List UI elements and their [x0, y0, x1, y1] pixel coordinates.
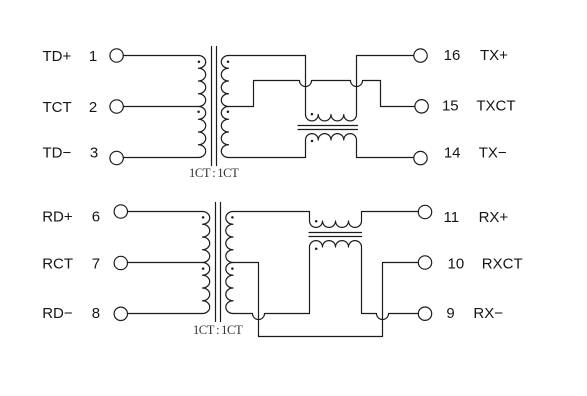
svg-text:1CT : 1CT: 1CT : 1CT	[193, 323, 243, 337]
transformer T2 primary winding	[203, 212, 210, 314]
wire pin2 to primary center tap	[123, 106, 198, 108]
wire pin6 to T2 primary top	[128, 211, 203, 213]
svg-text:RX−: RX−	[473, 305, 503, 322]
svg-text:10: 10	[448, 255, 465, 272]
pin 3 terminal circle	[110, 151, 123, 164]
svg-text:TX+: TX+	[480, 47, 508, 64]
svg-text:1: 1	[89, 48, 97, 65]
wire T1 secondary bottom to choke L1 lower winding and pin 14	[229, 134, 414, 158]
svg-text:15: 15	[442, 97, 459, 114]
svg-text:TD+: TD+	[43, 48, 72, 65]
svg-text:1CT : 1CT: 1CT : 1CT	[189, 166, 239, 180]
wire TXCT: T1 secondary center tap to pin 15 with crossover hops	[229, 81, 415, 107]
T2 secondary polarity dot upper	[231, 216, 234, 219]
wire pin1 to primary top	[123, 55, 198, 57]
choke L1 core line lower	[298, 129, 358, 131]
pin 8 terminal circle	[114, 307, 127, 320]
transformer T2 core line left	[215, 203, 217, 322]
T2 primary polarity dot upper	[202, 216, 205, 219]
T2 secondary polarity dot lower	[231, 267, 234, 270]
transformer T1 primary winding	[199, 56, 206, 158]
pin 7 terminal circle	[114, 256, 127, 269]
transformer T1 core line left	[211, 47, 213, 166]
T2 primary polarity dot lower	[202, 267, 205, 270]
transformer T2 secondary winding	[226, 212, 233, 314]
svg-text:11: 11	[444, 209, 460, 226]
choke L1 lower winding polarity dot	[311, 140, 314, 143]
svg-text:TXCT: TXCT	[476, 97, 515, 114]
svg-text:6: 6	[92, 209, 100, 226]
wire pin8 to T2 primary bottom	[128, 313, 203, 315]
svg-text:RD+: RD+	[42, 209, 73, 226]
pin 16 terminal circle	[414, 49, 427, 62]
choke L2 lower winding polarity dot	[315, 247, 318, 250]
T1 primary polarity dot upper	[198, 60, 201, 63]
svg-text:RX+: RX+	[479, 209, 509, 226]
svg-text:TCT: TCT	[43, 99, 72, 116]
T1 secondary polarity dot lower	[227, 110, 230, 113]
wire RXCT: T2 secondary center tap down around to pin 10	[233, 263, 418, 337]
T1 secondary polarity dot upper	[227, 60, 230, 63]
choke L2 core line lower	[309, 236, 362, 238]
choke L1 core line upper	[298, 125, 358, 127]
pin 11 terminal circle	[418, 205, 431, 218]
wire pin7 to T2 primary center tap	[128, 262, 203, 264]
svg-text:3: 3	[90, 144, 98, 161]
pin 9 terminal circle	[418, 307, 431, 320]
svg-text:14: 14	[444, 145, 461, 162]
svg-text:7: 7	[92, 255, 100, 272]
svg-text:2: 2	[89, 99, 97, 116]
svg-text:16: 16	[444, 47, 461, 64]
pin 14 terminal circle	[414, 151, 427, 164]
svg-text:9: 9	[446, 305, 454, 322]
svg-text:8: 8	[92, 305, 100, 322]
choke L1 upper winding polarity dot	[311, 113, 314, 116]
T1 primary polarity dot lower	[197, 110, 200, 113]
svg-text:RD−: RD−	[42, 305, 73, 322]
transformer T1 core line right	[216, 47, 218, 166]
svg-text:RCT: RCT	[42, 255, 73, 272]
svg-text:TX−: TX−	[479, 145, 507, 162]
wire T2 secondary bottom to choke L2 lower winding and pin 9 with hops	[233, 241, 418, 320]
svg-text:RXCT: RXCT	[482, 255, 523, 272]
choke L2 core line upper	[309, 232, 362, 234]
pin 10 terminal circle	[418, 256, 431, 269]
choke L2 upper winding polarity dot	[315, 220, 318, 223]
pin 15 terminal circle	[415, 100, 428, 113]
wire pin3 to primary bottom	[123, 157, 198, 159]
pin 6 terminal circle	[114, 205, 127, 218]
transformer T2 core line right	[220, 203, 222, 322]
pin 1 terminal circle	[110, 49, 123, 62]
pin 2 terminal circle	[110, 100, 123, 113]
wire T2 secondary top to choke L2 upper winding and pin 11	[233, 212, 418, 228]
svg-text:TD−: TD−	[43, 144, 72, 161]
wire T1 secondary top to choke L1 upper winding and pin 16	[229, 56, 414, 121]
transformer T1 secondary winding	[221, 56, 228, 158]
